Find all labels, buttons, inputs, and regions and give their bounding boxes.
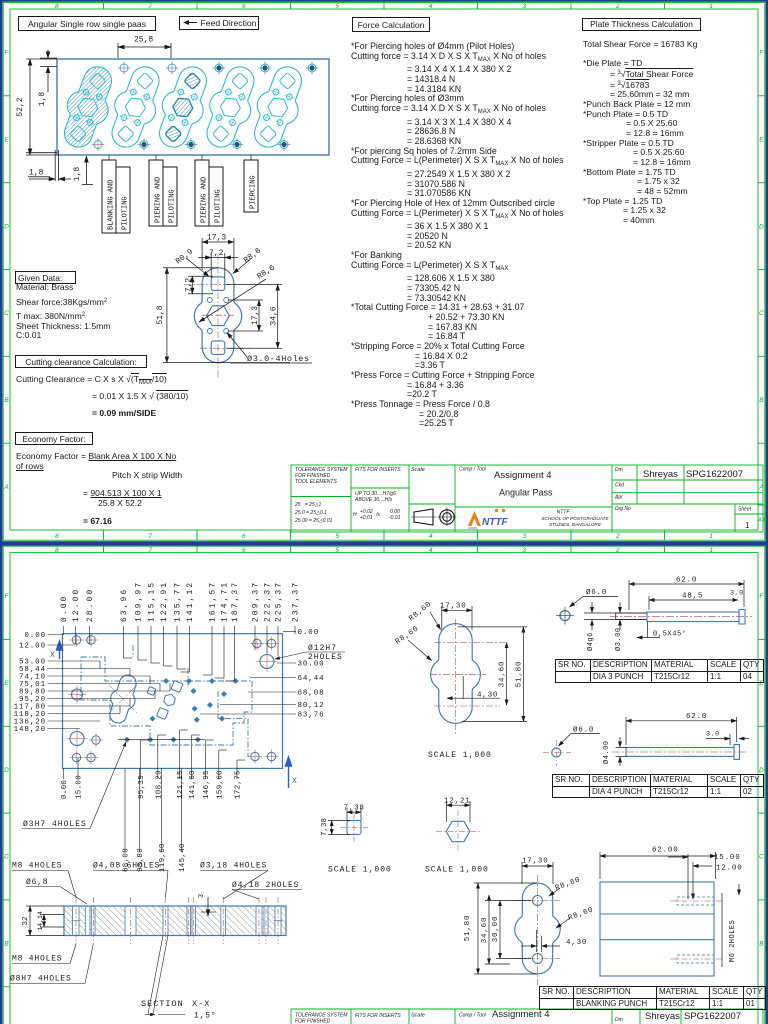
dia4 punch end circle (552, 748, 561, 757)
svg-text:X: X (292, 777, 297, 786)
section bar body (64, 906, 286, 936)
svg-text:Assignment 4: Assignment 4 (494, 470, 552, 481)
left coordinate labels (14, 632, 170, 734)
page left blue border (0, 0, 3, 1024)
svg-text:F: F (759, 593, 764, 600)
svg-text:A3: A3 (757, 518, 766, 524)
strip station 5 part outline (244, 61, 312, 154)
svg-text:34,6: 34,6 (270, 306, 279, 325)
svg-text:237,37: 237,37 (293, 581, 301, 622)
svg-text:174,71: 174,71 (222, 581, 230, 622)
svg-text:115,15: 115,15 (149, 581, 157, 622)
page right blue border (766, 0, 768, 1024)
svg-text:1: 1 (709, 547, 713, 554)
svg-text:Drg No: Drg No (615, 506, 631, 512)
svg-text:Scale: Scale (411, 1013, 425, 1019)
svg-text:62.0: 62.0 (686, 713, 707, 721)
table dia3 punch (555, 659, 764, 683)
svg-text:3: 3 (198, 894, 206, 898)
punch position markers (118, 678, 239, 743)
svg-text:25 = 25△1: 25 = 25△1 (294, 502, 321, 508)
svg-text:2: 2 (615, 533, 620, 540)
svg-text:SPG1622007: SPG1622007 (686, 469, 743, 480)
svg-text:159,60: 159,60 (216, 770, 224, 799)
svg-text:32: 32 (22, 916, 30, 925)
svg-text:6: 6 (242, 533, 246, 540)
plate thickness text (583, 40, 763, 225)
page top blue border (0, 0, 768, 2)
svg-text:64,44: 64,44 (298, 675, 325, 683)
table blanking punch (539, 986, 766, 1010)
sheet1 A3 zone box (758, 505, 765, 514)
svg-text:145,40: 145,40 (179, 843, 187, 872)
strip outline rectangle (57, 59, 329, 155)
svg-text:SCHOOL OF POSTGRADUATE: SCHOOL OF POSTGRADUATE (541, 516, 609, 521)
section centerlines (76, 897, 278, 944)
svg-text:SCALE 1,000: SCALE 1,000 (328, 866, 392, 875)
station label BLANKING AND PILOTING (102, 155, 130, 233)
svg-text:7,2: 7,2 (209, 249, 224, 258)
die opening dash-dot contour (81, 645, 252, 757)
svg-text:PILOTING: PILOTING (169, 189, 177, 223)
svg-text:83,76: 83,76 (298, 712, 325, 720)
svg-text:Ckd: Ckd (615, 483, 624, 489)
svg-text:34,60: 34,60 (499, 661, 507, 688)
svg-text:Ø12H7: Ø12H7 (308, 644, 337, 653)
svg-text:Ø4,08 6HOLES: Ø4,08 6HOLES (93, 862, 160, 871)
svg-text:12.00: 12.00 (716, 865, 743, 873)
svg-text:B: B (759, 397, 764, 404)
svg-text:NTTF: NTTF (482, 517, 508, 528)
station label PIERCING (244, 155, 258, 212)
dia3 punch dims (584, 580, 744, 638)
svg-text:M8 4HOLES: M8 4HOLES (12, 955, 62, 964)
svg-text:BLANKING AND: BLANKING AND (108, 180, 116, 230)
svg-text:ABOVE 30....H/s: ABOVE 30....H/s (354, 497, 393, 503)
svg-text:R8,60: R8,60 (394, 625, 420, 646)
svg-text:1,8: 1,8 (73, 167, 82, 182)
svg-text:Comp / Tool: Comp / Tool (459, 467, 487, 473)
svg-text:R8,6: R8,6 (256, 263, 277, 281)
die plate corner holes (67, 633, 279, 765)
section labels below (10, 936, 185, 1015)
svg-text:25.00 = 25△0.01: 25.00 = 25△0.01 (294, 518, 333, 524)
sheet2 partial title block (291, 1009, 763, 1024)
section left dims (26, 906, 64, 936)
svg-text:17,3: 17,3 (251, 306, 260, 325)
svg-text:Scale: Scale (411, 467, 425, 473)
hexagon 12,21 detail (446, 821, 470, 841)
svg-text:Ø8H7 4HOLES: Ø8H7 4HOLES (10, 975, 72, 984)
blanking punch dims (474, 862, 570, 974)
svg-text:Ø3.00: Ø3.00 (614, 627, 623, 651)
svg-text:34,60: 34,60 (481, 917, 489, 944)
svg-text:Ø4.00: Ø4.00 (602, 740, 611, 764)
svg-text:1: 1 (709, 3, 713, 10)
blanking punch front view (515, 883, 560, 974)
svg-text:122,91: 122,91 (161, 581, 169, 622)
die profile dims (408, 606, 527, 722)
table dia4 punch (552, 774, 764, 798)
bottom tier1 coordinate labels (61, 730, 245, 799)
svg-text:SCALE 1,000: SCALE 1,000 (425, 866, 489, 875)
svg-text:8: 8 (55, 533, 59, 540)
svg-text:PIERCING: PIERCING (250, 175, 258, 209)
svg-text:F: F (5, 593, 10, 600)
svg-text:4: 4 (429, 547, 433, 554)
dia3 punch end circle (560, 611, 570, 621)
svg-text:E: E (4, 136, 9, 143)
svg-text:Ø6,8: Ø6,8 (26, 878, 48, 887)
svg-text:15.00: 15.00 (714, 854, 741, 862)
svg-text:146,95: 146,95 (203, 770, 211, 799)
strip station 4 part outline (197, 61, 265, 154)
svg-text:Dm: Dm (615, 467, 623, 473)
svg-text:SCALE 1,000: SCALE 1,000 (428, 751, 492, 760)
strip dim 52,2 (26, 59, 57, 155)
strip station 2 part outline (102, 61, 170, 154)
svg-text:C: C (4, 854, 9, 861)
svg-text:5: 5 (335, 547, 339, 554)
strip dim 25,8 (118, 43, 171, 58)
svg-text:51,80: 51,80 (516, 661, 524, 688)
svg-text:7,38: 7,38 (344, 805, 365, 813)
svg-text:-0.01: -0.01 (389, 515, 401, 521)
svg-text:SECTION: SECTION (141, 999, 184, 1009)
svg-text:1: 1 (745, 521, 750, 530)
svg-text:R8,60: R8,60 (567, 906, 595, 923)
svg-text:12.00: 12.00 (19, 643, 46, 651)
svg-text:68,08: 68,08 (298, 690, 325, 698)
svg-text:48,5: 48,5 (682, 593, 703, 601)
die profile centerlines (430, 619, 507, 734)
dia4 punch body (626, 745, 740, 760)
svg-text:F: F (5, 50, 10, 57)
svg-text:X-X: X-X (192, 999, 210, 1009)
strip station 1 part outline (54, 61, 122, 154)
svg-text:FOR FINISHED: FOR FINISHED (295, 1019, 331, 1024)
svg-text:PIERING AND: PIERING AND (155, 177, 163, 223)
svg-text:2: 2 (615, 547, 620, 554)
svg-text:25.0 = 25△0.1: 25.0 = 25△0.1 (294, 510, 327, 516)
svg-text:Apr: Apr (614, 495, 623, 501)
svg-text:30,00: 30,00 (492, 916, 500, 943)
svg-text:15.00: 15.00 (76, 775, 84, 799)
svg-text:B: B (4, 397, 9, 404)
svg-text:0.00: 0.00 (298, 629, 320, 637)
svg-text:52,2: 52,2 (16, 97, 25, 116)
svg-text:R8,60: R8,60 (408, 600, 434, 623)
svg-text:14,14: 14,14 (37, 911, 44, 931)
die plate outline (63, 634, 283, 769)
svg-text:80,12: 80,12 (298, 702, 325, 710)
svg-text:TOOL ELEMENTS: TOOL ELEMENTS (295, 479, 337, 485)
svg-text:H: H (353, 512, 357, 518)
svg-text:PILOTING: PILOTING (215, 189, 223, 223)
svg-text:D: D (759, 767, 764, 774)
svg-text:1: 1 (709, 533, 713, 540)
section slots (71, 906, 283, 936)
svg-text:5: 5 (335, 3, 339, 10)
svg-text:25,8: 25,8 (134, 36, 153, 45)
svg-text:Ø4g6: Ø4g6 (586, 632, 595, 651)
svg-text:Ø3H7 4HOLES: Ø3H7 4HOLES (23, 820, 87, 829)
svg-text:3,0: 3,0 (730, 590, 744, 598)
svg-text:/s: /s (375, 512, 380, 518)
blanking punch side dims (600, 852, 739, 967)
svg-text:6: 6 (242, 3, 246, 10)
svg-text:28.00: 28.00 (87, 588, 95, 622)
projection symbol (411, 508, 457, 527)
svg-text:M8 4HOLES: M8 4HOLES (12, 862, 62, 871)
svg-text:PIERING AND: PIERING AND (201, 177, 209, 223)
strip pilot holes (92, 62, 319, 152)
svg-text:7: 7 (148, 533, 152, 540)
svg-text:187,37: 187,37 (232, 581, 240, 622)
svg-text:141,60: 141,60 (189, 770, 197, 799)
svg-text:4: 4 (429, 3, 433, 10)
economy factor box (15, 432, 93, 445)
cutting clearance box (15, 355, 147, 368)
svg-text:Dm: Dm (615, 1017, 623, 1023)
title block main texts (494, 469, 750, 530)
blank detail outline (194, 268, 241, 363)
svg-text:R8,60: R8,60 (554, 876, 582, 893)
svg-text:108,29: 108,29 (155, 770, 163, 799)
svg-text:STUDIES, BANGALORE: STUDIES, BANGALORE (549, 522, 602, 527)
given data box (15, 271, 76, 284)
svg-text:3: 3 (522, 3, 526, 10)
svg-text:4,30: 4,30 (477, 692, 498, 700)
svg-text:1,5°: 1,5° (194, 1012, 216, 1021)
title block small texts (294, 467, 752, 528)
svg-text:D: D (4, 767, 9, 774)
svg-text:7,38: 7,38 (321, 818, 329, 836)
svg-text:8: 8 (55, 3, 59, 10)
svg-text:B: B (4, 941, 9, 948)
svg-text:E: E (4, 680, 9, 687)
svg-text:C: C (759, 310, 764, 317)
svg-text:+0.01: +0.01 (360, 515, 373, 521)
svg-text:Ø3,18 4HOLES: Ø3,18 4HOLES (200, 862, 267, 871)
station label PIERING AND PILOTING (195, 155, 223, 226)
X axis arrows (56, 641, 291, 788)
svg-text:FITS FOR INSERTS: FITS FOR INSERTS (355, 1013, 401, 1019)
svg-text:8: 8 (55, 547, 59, 554)
svg-text:62.0: 62.0 (676, 577, 697, 585)
svg-text:225,37: 225,37 (276, 581, 284, 622)
force calculation text (351, 42, 591, 429)
NTTF logo (468, 509, 508, 529)
svg-text:3: 3 (522, 547, 526, 554)
strip station 3 part outline (149, 61, 217, 154)
svg-text:51,80: 51,80 (464, 915, 472, 942)
svg-text:2HOLES: 2HOLES (308, 653, 343, 662)
square 7,38 detail (347, 821, 361, 835)
svg-text:Angular Pass: Angular Pass (499, 488, 553, 498)
svg-text:Ø4,18 2HOLES: Ø4,18 2HOLES (232, 881, 299, 890)
svg-text:222,37: 222,37 (265, 581, 273, 622)
svg-text:135,77: 135,77 (175, 581, 183, 622)
page separator blue band (0, 541, 768, 546)
svg-text:17,30: 17,30 (440, 603, 467, 611)
dia3 punch body (616, 613, 647, 620)
title boxes row (18, 16, 156, 31)
svg-text:7: 7 (148, 3, 152, 10)
svg-text:12,21: 12,21 (444, 798, 471, 806)
svg-text:Comp / Tool: Comp / Tool (459, 1013, 487, 1019)
zone labels (4, 547, 764, 948)
svg-text:17,30: 17,30 (522, 858, 549, 866)
svg-text:0.00: 0.00 (61, 594, 69, 622)
svg-text:Ø6.0: Ø6.0 (586, 588, 607, 597)
zone labels (3, 3, 764, 540)
die plate part contour (blob) (104, 672, 142, 726)
svg-text:0.00: 0.00 (61, 780, 69, 799)
svg-text:1,8: 1,8 (29, 169, 44, 178)
svg-text:Assignment 4: Assignment 4 (492, 1009, 550, 1020)
svg-text:141,12: 141,12 (187, 581, 195, 622)
bottom tier2 coordinate labels (123, 768, 187, 872)
svg-text:C: C (759, 854, 764, 861)
svg-text:6: 6 (242, 547, 246, 554)
svg-text:172,75: 172,75 (235, 770, 243, 799)
svg-text:4,30: 4,30 (566, 939, 587, 947)
svg-text:0,5X45°: 0,5X45° (653, 630, 687, 639)
svg-text:12.00: 12.00 (73, 588, 81, 622)
svg-text:209,37: 209,37 (253, 581, 261, 622)
svg-text:M6 2HOLES: M6 2HOLES (729, 920, 737, 962)
svg-text:17,3: 17,3 (207, 234, 226, 243)
blank detail centerlines (184, 253, 252, 377)
blank detail dimensions (163, 238, 290, 363)
sheet border frame (3, 3, 765, 541)
svg-text:R8,6: R8,6 (242, 246, 263, 265)
svg-text:109,97: 109,97 (136, 581, 144, 622)
svg-text:4: 4 (429, 533, 433, 540)
svg-text:63,96: 63,96 (121, 588, 129, 622)
svg-text:FITS FOR INSERTS: FITS FOR INSERTS (355, 467, 401, 473)
title block grid (291, 465, 763, 532)
sheet border frame (3, 546, 765, 1024)
svg-text:3.0: 3.0 (706, 731, 720, 739)
blanking punch side view (600, 882, 714, 976)
svg-text:X: X (50, 651, 55, 660)
right coordinate labels (200, 629, 325, 720)
svg-text:1,8: 1,8 (38, 92, 47, 107)
svg-text:5: 5 (335, 533, 339, 540)
svg-text:SPG1622007: SPG1622007 (684, 1011, 741, 1022)
svg-text:NTTF: NTTF (557, 510, 571, 516)
station label PIERING AND PILOTING (149, 155, 177, 226)
svg-text:Sheet: Sheet (738, 507, 752, 513)
svg-text:2: 2 (615, 3, 620, 10)
die profile outline (431, 624, 481, 724)
dia4 punch dims (616, 717, 749, 766)
svg-text:D: D (4, 223, 9, 230)
strip dims 1,8 margins (26, 50, 93, 185)
svg-text:0.00: 0.00 (24, 632, 46, 640)
svg-text:R0,9: R0,9 (174, 247, 195, 266)
svg-text:B: B (759, 941, 764, 948)
section labels above (12, 871, 302, 917)
svg-text:62.00: 62.00 (652, 847, 679, 855)
top coordinate labels (61, 581, 301, 681)
svg-text:7: 7 (148, 547, 152, 554)
svg-text:3: 3 (522, 533, 526, 540)
svg-text:148,20: 148,20 (14, 726, 46, 734)
svg-text:Shreyas: Shreyas (645, 1011, 680, 1022)
punch opening shapes (147, 681, 183, 720)
svg-text:A: A (3, 484, 8, 491)
svg-text:PILOTING: PILOTING (122, 196, 130, 230)
svg-text:Ø3.0-4Holes: Ø3.0-4Holes (247, 354, 310, 364)
svg-text:Shreyas: Shreyas (643, 469, 678, 480)
svg-text:161,57: 161,57 (210, 581, 218, 622)
svg-text:C: C (4, 310, 9, 317)
